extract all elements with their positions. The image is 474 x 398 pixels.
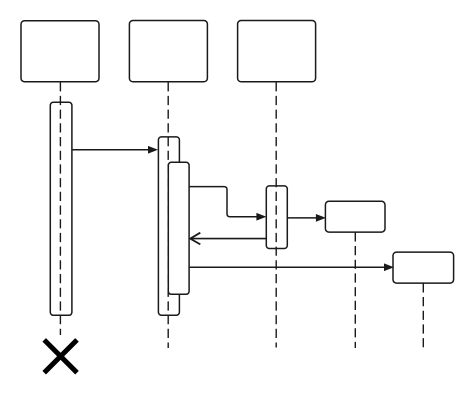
lifeline head C [238,21,316,82]
message 3: C creates object D [287,215,324,222]
lifeline D (created object 1, dashed) [354,232,356,348]
created object box D [325,201,385,232]
lifeline E (created object 2, dashed) [422,283,424,348]
message 2: B nested to C (stair-routed) [189,187,265,220]
lifeline head B [129,21,207,82]
created object box E [393,252,454,283]
lifeline head A [21,21,99,82]
activation bar 3 (lifeline C) [266,186,287,249]
lifeline B (dashed) [167,82,169,348]
message 4: return C to B nested (open arrowhead) [190,233,266,245]
activation bar 2 (lifeline B outer) [158,137,179,315]
message 1: A to B [72,147,157,154]
activation bar 1 (lifeline A) [50,102,72,315]
lifeline A (dashed) [59,82,61,335]
lifeline C (dashed) [275,82,277,347]
destruction X on lifeline A [44,340,77,373]
message 5: B nested creates object E [189,264,393,271]
activation bar 2a (lifeline B nested) [168,162,189,294]
